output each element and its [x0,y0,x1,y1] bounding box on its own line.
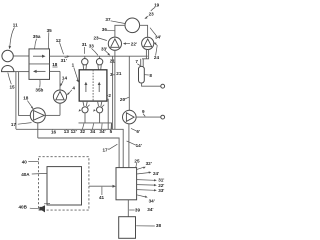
svg-text:17: 17 [11,122,17,127]
label 22' [123,41,137,46]
label 34' [99,123,105,134]
valve 33 [96,56,102,70]
pump 24 [142,37,154,58]
label 18 [23,96,33,110]
label 34'' [147,207,153,212]
label 39 [129,207,140,212]
funnel right [98,101,102,106]
svg-text:17': 17' [103,147,109,152]
signal arrow 32' [137,161,152,169]
svg-text:25: 25 [134,158,140,163]
label 1 [72,62,79,82]
svg-text:41: 41 [99,195,105,200]
svg-text:13: 13 [64,129,70,134]
svg-text:2: 2 [108,93,111,98]
svg-text:31': 31' [61,58,67,63]
svg-text:34': 34' [147,207,153,212]
svg-text:33': 33' [101,46,107,51]
label 8 [145,73,153,78]
label 23 [144,11,154,19]
svg-text:35: 35 [47,28,53,33]
valve 31 [82,56,88,70]
label 6' [131,128,140,134]
wire bus B [16,129,123,167]
svg-text:40A: 40A [21,172,30,177]
valve 32 [79,105,90,113]
label 34 [90,123,96,134]
pump 22' [108,37,121,56]
svg-text:35b: 35b [35,87,43,92]
signal arrow 34'b [137,195,155,204]
heat exchanger 35 [29,49,50,80]
svg-text:34': 34' [155,35,161,40]
svg-text:31': 31' [158,178,164,183]
label 40A [21,172,47,177]
svg-text:14': 14' [136,143,142,148]
svg-text:38: 38 [156,223,162,228]
port circle B [161,115,165,119]
svg-text:15: 15 [10,85,16,90]
label 38 [136,223,161,228]
signal arrow 33' [137,188,165,193]
svg-text:7: 7 [135,59,138,64]
wire main bus [50,55,148,57]
svg-text:34': 34' [149,198,155,203]
label 31 [82,42,88,54]
label 34' top [150,28,161,40]
label 20 [120,97,129,102]
label 32 [80,123,86,134]
label 35b [35,80,43,92]
label 33 [89,44,98,56]
label 7 [135,59,140,65]
funnel left [83,101,87,106]
label 5 [110,123,113,134]
svg-text:12: 12 [56,38,62,43]
speaker 40B [39,204,50,213]
label 40 [22,159,39,164]
label 14' [127,141,142,148]
wire valve drops [85,113,100,123]
svg-text:12': 12' [71,129,77,134]
svg-text:4: 4 [72,86,75,91]
label 31' [61,55,70,63]
label 33' [101,46,110,55]
label 13 [64,129,70,134]
svg-text:34': 34' [99,129,105,134]
wire [14,71,29,73]
tank 11 [2,50,13,61]
label 12 [56,38,64,54]
hmi box 40A [47,167,82,205]
label 17' [103,144,118,152]
svg-text:40: 40 [22,159,28,164]
signal arrow 41 [89,185,116,200]
svg-text:18: 18 [52,62,58,67]
filter 8 [139,66,145,83]
label 2 [107,93,111,98]
svg-text:1: 1 [72,62,75,67]
label 35a [33,34,41,49]
svg-text:11: 11 [13,22,18,27]
signal arrow 22' [137,183,165,188]
label 16 [51,129,57,134]
wire right risers [107,56,115,129]
wire pump 9 riser [128,56,130,110]
label 21b [116,71,122,76]
svg-text:23: 23 [94,36,100,41]
svg-text:16: 16 [51,129,57,134]
pump 16 [50,71,67,115]
wire [13,55,29,57]
label 23 left [94,36,107,41]
label 17 [11,122,32,127]
svg-text:34: 34 [90,129,96,134]
label 3 [110,72,115,77]
memory 38 [119,217,136,239]
signal arrow 24' [137,171,160,176]
port circle A [161,84,165,88]
svg-text:22': 22' [131,41,137,46]
svg-text:19: 19 [154,2,160,7]
svg-text:6': 6' [136,129,140,134]
wire pipe to filter [141,59,144,67]
svg-text:5: 5 [110,129,113,134]
label 18b [52,62,58,67]
label 21 [110,59,116,64]
valve 34 [93,105,104,113]
electrolyser 1 [79,70,107,101]
svg-text:39: 39 [135,207,141,212]
pump 9 [123,110,161,167]
wire bus A [79,123,112,129]
svg-text:9: 9 [142,109,145,114]
svg-text:14: 14 [62,76,68,81]
svg-text:31: 31 [82,42,88,47]
label 25 [134,158,140,167]
svg-text:37: 37 [105,17,111,22]
dashed enclosure 40 [39,157,89,210]
wire filter out [142,83,161,86]
pump 17 [30,108,60,138]
svg-text:24': 24' [153,171,159,176]
label 37 [105,17,125,23]
label 35 [47,28,53,49]
wire line C [38,138,119,168]
wire controller to 38 [127,200,129,217]
label 36 [102,27,115,32]
label 40B [19,205,39,210]
label 14 [60,76,67,87]
label 11 [9,22,19,49]
signal arrow 31' [137,178,165,183]
svg-text:8: 8 [149,73,152,78]
label 24 [153,42,159,60]
label 19 [151,2,160,11]
svg-text:18: 18 [23,96,29,101]
wire 18 pipe [16,72,30,129]
tank 15 [2,65,14,71]
svg-text:23: 23 [149,11,155,16]
svg-text:24: 24 [154,55,160,60]
svg-text:21: 21 [110,59,116,64]
svg-text:33': 33' [158,188,164,193]
compressor 37 [115,18,148,37]
svg-text:33: 33 [89,44,95,49]
controller 42 [116,168,137,200]
svg-text:40B: 40B [19,205,28,210]
svg-text:32': 32' [146,161,152,166]
svg-text:35a: 35a [33,34,41,39]
svg-text:36: 36 [102,27,108,32]
label 4 [67,86,76,96]
svg-text:32: 32 [80,129,86,134]
label 15 [8,73,15,90]
label 9 [142,109,145,117]
svg-text:20: 20 [120,97,126,102]
svg-text:21: 21 [116,71,122,76]
label 12' [71,129,77,134]
